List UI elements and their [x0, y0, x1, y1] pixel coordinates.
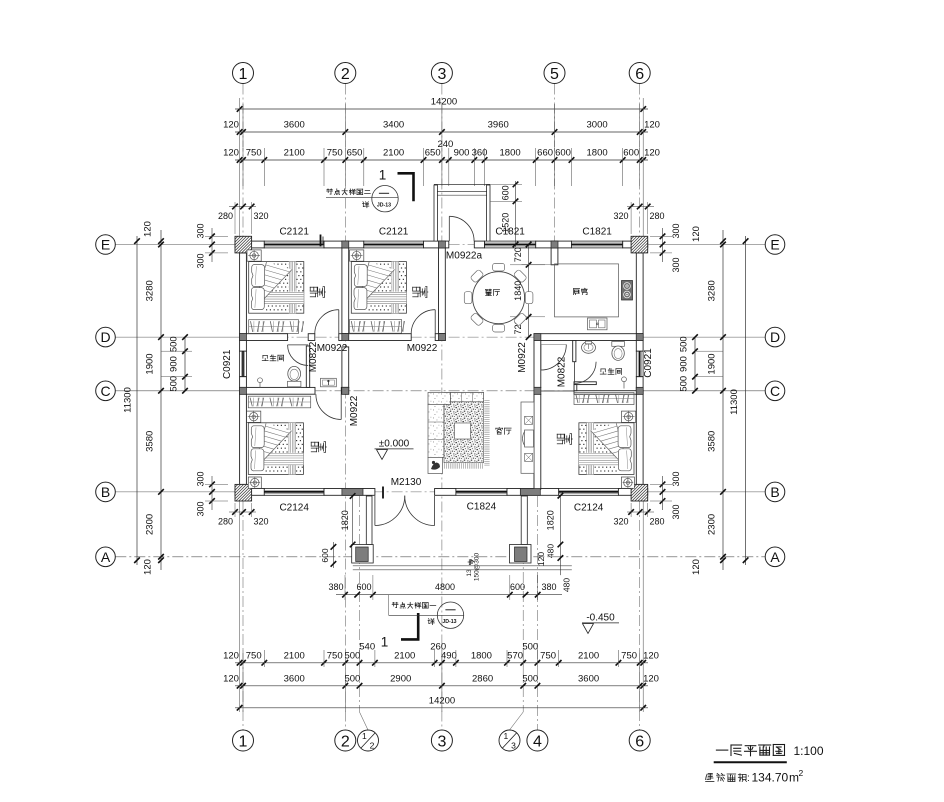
svg-text:320: 320 [613, 517, 628, 527]
svg-text:M2130: M2130 [391, 477, 422, 488]
svg-text:2: 2 [799, 768, 804, 778]
wall axis2 alcove to C [342, 347, 349, 388]
svg-text:1: 1 [239, 733, 248, 750]
wall C left segment [240, 387, 315, 394]
svg-text:M0922a: M0922a [446, 251, 483, 262]
sofa top seats [451, 393, 484, 402]
bottom dimension line overall 14200 [235, 707, 648, 709]
grid line axis 2 [344, 84, 346, 731]
corner pier B/1 hatched [235, 484, 252, 501]
grid line axis B [115, 491, 239, 493]
svg-text:2100: 2100 [383, 148, 404, 159]
axis bubble A right [765, 547, 785, 567]
side table with plant [428, 457, 443, 473]
wardrobe bedroom2 [350, 320, 402, 334]
entry porch top: steps and side walls [434, 183, 490, 185]
door M2130 double entry: leaves and arcs [374, 496, 376, 526]
room label bedroom4 [563, 434, 565, 438]
wall E to corner 6 [623, 241, 648, 248]
svg-text:3280: 3280 [707, 280, 718, 301]
svg-text:1820: 1820 [340, 510, 350, 530]
svg-text:750: 750 [246, 148, 262, 159]
svg-text:C0921: C0921 [643, 348, 654, 378]
svg-text:1800: 1800 [500, 148, 521, 159]
rug fringe bottom [444, 463, 446, 469]
svg-text:600: 600 [320, 548, 330, 562]
window C2121 bay 2-3 [364, 241, 424, 248]
left pier dimension 280/320 bottom [229, 511, 256, 513]
room label dining [486, 289, 488, 291]
svg-text:1: 1 [379, 168, 387, 183]
right pier dimension 300/300 at E [662, 228, 664, 262]
svg-text:500: 500 [679, 336, 690, 352]
window C1821 bay 5-6 [572, 241, 623, 248]
axis bubble D right [765, 327, 785, 347]
living room rug (speckled) [444, 393, 484, 463]
grid line axis C [115, 390, 239, 392]
wall right axis6 upper [636, 253, 643, 351]
door M0922 bedroom3: leaf and arc [340, 394, 342, 419]
svg-text:D: D [100, 329, 110, 345]
svg-text:6: 6 [635, 66, 644, 83]
top dimension line detail chain [235, 159, 648, 161]
wash basin alcove left [321, 378, 337, 387]
floor drain bathroom2 [622, 377, 627, 382]
dining round table with 8 chairs [525, 292, 533, 304]
window C1821 bay 3-5 [485, 241, 536, 248]
wall B window to door M2130 [324, 489, 375, 496]
left chain dimension [160, 230, 162, 570]
porch slab edge lines [353, 565, 572, 567]
porch column right [510, 545, 532, 564]
svg-text:660: 660 [537, 148, 553, 159]
axis bubble B right [765, 482, 785, 502]
wall D bedroom2 segment [345, 334, 411, 341]
door M0822 bathroom2: leaf and arc [573, 362, 575, 384]
svg-text:480: 480 [546, 544, 556, 558]
svg-text:2300: 2300 [145, 514, 156, 535]
right overall dimension 11300 [745, 236, 747, 565]
right pier dimension 320/280 top [627, 206, 654, 208]
wall D kitchen segment [534, 334, 643, 341]
axis bubble 3 bottom [431, 730, 452, 751]
axis bubble 1 top [233, 63, 254, 84]
svg-text:900: 900 [679, 356, 690, 372]
right pier dimension 320/280 bottom [627, 511, 654, 513]
svg-text:300: 300 [671, 223, 681, 238]
room label bedroom2 [419, 287, 421, 291]
svg-text:750: 750 [246, 650, 262, 661]
wall D bedroom1 segment [240, 334, 288, 341]
left pier dimension 280/320 top [229, 206, 256, 208]
detail bubble top (jiedian daYangTu 2) [327, 189, 329, 191]
wall E door to window [474, 241, 484, 248]
grid line axis D [115, 336, 239, 338]
svg-text:300: 300 [196, 471, 206, 486]
svg-text:750: 750 [327, 148, 343, 159]
door M0922 bedroom2: leaf and arc [434, 310, 436, 334]
left overall dimension 11300 [136, 236, 138, 565]
wall axis5 stub below E [551, 248, 558, 265]
svg-text:C: C [100, 383, 110, 399]
pedestal basin bathroom2 [582, 342, 596, 354]
room label living [498, 426, 500, 429]
wall C bedroom3 door to axis2 [341, 387, 348, 394]
svg-text:260: 260 [430, 642, 446, 653]
wall D stub between doors [308, 334, 315, 341]
wall B corner to window [235, 489, 264, 496]
svg-text:M0922: M0922 [407, 343, 438, 354]
door M0922 hall/axis4: leaf and arc [540, 345, 542, 371]
bottom dimension extension lines [239, 501, 241, 712]
svg-text:120: 120 [691, 559, 702, 575]
wall axis4 D to C [534, 341, 541, 388]
svg-text:500: 500 [169, 376, 180, 392]
door M0922a entry top: leaf and arc [448, 216, 450, 241]
svg-text:750: 750 [540, 650, 556, 661]
svg-text:120: 120 [643, 650, 659, 661]
kitchen counter outline [522, 264, 555, 266]
wall right axis6 lower [636, 377, 643, 485]
wall left axis1 lower [240, 377, 247, 485]
TV cabinet speaker bottom [525, 453, 533, 461]
bathroom1 east wall [306, 346, 309, 387]
axis bubble 1 bottom [233, 730, 254, 751]
svg-text:2900: 2900 [390, 673, 411, 684]
svg-text:2: 2 [341, 733, 350, 750]
svg-text:1800: 1800 [471, 650, 492, 661]
svg-text:120: 120 [143, 559, 154, 575]
svg-text:C2124: C2124 [574, 503, 604, 514]
svg-text:300: 300 [196, 253, 206, 268]
svg-text:E: E [101, 237, 110, 253]
svg-text:1: 1 [504, 731, 509, 741]
bedside table 2 bedroom3 [248, 477, 261, 488]
svg-text:240: 240 [437, 139, 453, 150]
svg-text:750: 750 [327, 650, 343, 661]
left pier dimension 300/300 at B [211, 476, 213, 510]
grid line axis A [115, 556, 765, 558]
svg-text:2: 2 [370, 741, 375, 751]
wall D bedroom1/axis2 segment [339, 334, 346, 341]
svg-text:2100: 2100 [394, 650, 415, 661]
svg-text:C1821: C1821 [495, 227, 525, 238]
wall E window to door [424, 241, 449, 248]
svg-text:1:100: 1:100 [793, 744, 823, 758]
bed bedroom1 [247, 250, 304, 314]
svg-text:120: 120 [223, 120, 239, 131]
svg-text:120: 120 [143, 221, 154, 237]
svg-text::: : [747, 773, 750, 784]
grid line axis 1 [242, 84, 244, 237]
svg-text:1840: 1840 [513, 281, 523, 301]
svg-text:E: E [770, 237, 779, 253]
wardrobe bedroom3 [248, 396, 310, 408]
section break mark on wall E [320, 235, 322, 247]
svg-text:3400: 3400 [383, 120, 404, 131]
axis bubble 6 bottom [629, 730, 650, 751]
right sub-chain 500/900/500 [694, 337, 696, 391]
svg-text:3280: 3280 [145, 280, 156, 301]
svg-text:2100: 2100 [578, 650, 599, 661]
right chain dimension [722, 230, 724, 570]
porch dimension 1820 left [352, 496, 354, 545]
svg-text:500: 500 [679, 376, 690, 392]
svg-text:120: 120 [691, 226, 702, 242]
svg-text:3600: 3600 [284, 120, 305, 131]
bed bedroom4 (mirrored) [579, 411, 636, 475]
grid line axis E [115, 244, 239, 246]
wall E window to axis5 [536, 241, 572, 248]
axis bubble 6 top [629, 63, 650, 84]
svg-text:120: 120 [223, 650, 239, 661]
kitchen stove with burners [622, 281, 633, 301]
grid line axis 4 [536, 496, 538, 730]
TV set [525, 430, 534, 447]
svg-text:C2121: C2121 [379, 227, 409, 238]
wall axis2 E to D [342, 248, 349, 334]
svg-text:360: 360 [472, 148, 488, 159]
svg-text:±0.000: ±0.000 [379, 439, 410, 450]
window C0921 right [636, 351, 643, 376]
svg-text:1900: 1900 [145, 353, 156, 374]
svg-text:600: 600 [510, 582, 525, 592]
svg-text:500: 500 [344, 673, 360, 684]
axis bubble E left [96, 235, 116, 255]
svg-text:2300: 2300 [707, 514, 718, 535]
svg-text:14200: 14200 [431, 97, 457, 108]
window C1824 [456, 489, 507, 496]
grid line axis 5 [554, 84, 556, 242]
toilet bathroom1 [288, 381, 301, 387]
porch column left [352, 545, 374, 564]
svg-text:A: A [101, 549, 111, 565]
svg-text:120: 120 [223, 673, 239, 684]
svg-text:C1821: C1821 [582, 227, 612, 238]
bathroom2 west wall [573, 341, 576, 362]
TV cabinet [521, 402, 534, 473]
svg-text:M0822: M0822 [308, 341, 319, 372]
pier block B left of door [342, 489, 363, 496]
section break mark on wall B [382, 487, 384, 499]
svg-text:320: 320 [253, 517, 268, 527]
svg-text:A: A [770, 549, 780, 565]
svg-text:300: 300 [671, 504, 681, 519]
svg-text:540: 540 [359, 642, 375, 653]
window C2121 bay 1-2 [264, 241, 324, 248]
top dimension line overall 14200 [235, 108, 648, 110]
svg-text:300: 300 [671, 257, 681, 272]
svg-text:1: 1 [381, 635, 389, 650]
doorway threshold bedroom4 [541, 390, 574, 392]
svg-text:650: 650 [347, 148, 363, 159]
axis bubble A left [96, 547, 116, 567]
svg-text:11300: 11300 [123, 387, 134, 413]
bedside table 2 bedroom4 [621, 477, 634, 488]
top dimension line bays [235, 131, 648, 133]
porch dimension 1820/480 right [559, 496, 561, 575]
wall C right segment bedroom4 [574, 391, 643, 395]
svg-text:B: B [101, 484, 110, 500]
sofa corner piece [428, 393, 451, 405]
porch side wall left [366, 496, 372, 545]
axis bubble 5 top [544, 63, 565, 84]
svg-text:600: 600 [356, 582, 371, 592]
bottom dimension line bays [235, 685, 648, 687]
corner pier E/1 hatched [235, 236, 252, 253]
svg-text:750: 750 [621, 650, 637, 661]
wall D bedroom2/axis3 segment [435, 334, 445, 341]
svg-text:120: 120 [536, 552, 546, 566]
grid line axis 1/2 [359, 496, 361, 712]
svg-text:150@300: 150@300 [474, 552, 481, 581]
grid line axis 3 [441, 84, 443, 731]
wardrobe bedroom1 [249, 320, 299, 334]
svg-text:300: 300 [196, 501, 206, 516]
svg-text:500: 500 [522, 673, 538, 684]
pier blocks at wall intersections [342, 241, 349, 248]
svg-text:120: 120 [644, 148, 660, 159]
svg-text:380: 380 [541, 582, 556, 592]
svg-text:600: 600 [555, 148, 571, 159]
svg-text:900: 900 [454, 148, 470, 159]
kitchen sink [588, 318, 608, 330]
axis bubble B left [96, 482, 116, 502]
svg-text:m: m [789, 771, 799, 785]
svg-text:2860: 2860 [472, 673, 493, 684]
axis bubble 4 bottom [527, 730, 548, 751]
rug fringe right [484, 400, 489, 402]
svg-text:320: 320 [253, 211, 268, 221]
axis bubble 1/3 bottom [499, 730, 520, 751]
toilet bathroom2 [612, 342, 625, 347]
bed bedroom2 [350, 250, 407, 314]
svg-text:480: 480 [562, 578, 572, 592]
axis bubble C right [765, 381, 785, 401]
TV cabinet speaker top [525, 416, 533, 424]
svg-text:4: 4 [533, 733, 542, 750]
svg-text:380: 380 [328, 582, 343, 592]
wall E axis1-window [235, 241, 264, 248]
grid line axis 6 [639, 84, 641, 237]
room label bathroom2 [601, 368, 605, 370]
svg-text:1800: 1800 [587, 148, 608, 159]
svg-text:1: 1 [362, 731, 367, 741]
bathroom2 south wall [574, 382, 596, 385]
axis bubble 2 top [335, 63, 356, 84]
svg-text:C0921: C0921 [222, 349, 233, 379]
bottom dimension detail chain [235, 662, 648, 664]
svg-text:3580: 3580 [707, 431, 718, 452]
svg-text:3000: 3000 [587, 120, 608, 131]
detail bubble bottom (jiedian daYangTu 1) [392, 602, 394, 604]
sofa left seats [428, 404, 444, 457]
axis bubble E right [765, 235, 785, 255]
wall B door to window C1824 [435, 489, 456, 496]
svg-text:5: 5 [550, 66, 559, 83]
porch top dimension 600/1520 [515, 181, 517, 247]
svg-text:300: 300 [671, 471, 681, 486]
axis bubble C left [96, 381, 116, 401]
svg-text:3960: 3960 [488, 120, 509, 131]
title: first floor plan [716, 749, 727, 751]
wall B to corner 6 [618, 489, 647, 496]
svg-text:120: 120 [643, 673, 659, 684]
pier block B right of door [520, 489, 540, 496]
svg-text:720: 720 [513, 247, 523, 262]
svg-text:900: 900 [169, 356, 180, 372]
svg-text:B: B [770, 484, 779, 500]
svg-text:M0922: M0922 [349, 395, 360, 426]
svg-text:280: 280 [649, 211, 664, 221]
grid line axis 1/3 [522, 496, 524, 712]
svg-text:300: 300 [196, 223, 206, 238]
right pier dimension 300/300 at B [662, 476, 664, 510]
svg-text:JD-13: JD-13 [442, 619, 456, 625]
room label bedroom1 [316, 287, 318, 291]
svg-text:3: 3 [511, 741, 516, 751]
svg-text:2100: 2100 [284, 148, 305, 159]
svg-text:C1824: C1824 [467, 502, 497, 513]
svg-text:120: 120 [223, 148, 239, 159]
svg-text:3: 3 [437, 66, 446, 83]
corner pier E/6 hatched [631, 236, 648, 253]
window C0921 left [240, 351, 247, 376]
svg-text:6: 6 [635, 733, 644, 750]
svg-text:11300: 11300 [729, 389, 740, 415]
title underline [714, 761, 787, 763]
svg-text:C: C [770, 383, 780, 399]
room label bathroom1 [263, 354, 267, 356]
svg-text:2: 2 [341, 66, 350, 83]
svg-text:1900: 1900 [707, 353, 718, 374]
axis bubble 2 bottom [335, 730, 356, 751]
wall E between windows [324, 241, 364, 248]
svg-text:1: 1 [239, 66, 248, 83]
svg-text:1820: 1820 [546, 510, 556, 530]
svg-text:4800: 4800 [435, 582, 455, 592]
svg-text:M0922: M0922 [317, 343, 348, 354]
dining dimension 720/1840/720 [528, 245, 530, 338]
svg-text:M0822: M0822 [557, 356, 568, 387]
bed bedroom3 [247, 411, 304, 475]
svg-text:500: 500 [344, 650, 360, 661]
porch side wall right [521, 496, 527, 545]
svg-text:2100: 2100 [284, 650, 305, 661]
svg-text:3: 3 [437, 733, 446, 750]
window C2124 bay 4-6 [559, 489, 619, 496]
svg-text:600: 600 [501, 185, 511, 200]
floor drain bathroom1 [258, 378, 263, 383]
svg-text:C2121: C2121 [279, 227, 309, 238]
svg-text:600: 600 [623, 148, 639, 159]
svg-text:320: 320 [613, 211, 628, 221]
svg-text:500: 500 [169, 336, 180, 352]
porch dimension 600 left column [332, 542, 334, 568]
svg-text:280: 280 [218, 211, 233, 221]
svg-text:3600: 3600 [578, 673, 599, 684]
wardrobe bedroom4 [574, 393, 634, 405]
svg-text:M0922: M0922 [517, 342, 528, 373]
bathroom2 wall corner piece [574, 385, 577, 391]
svg-text:-0.450: -0.450 [586, 613, 615, 624]
room label bedroom3 [317, 442, 319, 446]
wall axis4 C to B [534, 394, 541, 489]
svg-text:280: 280 [649, 517, 664, 527]
svg-text:134.70: 134.70 [752, 771, 789, 785]
axis bubble 1/2 bottom [358, 730, 379, 751]
svg-text:570: 570 [507, 650, 523, 661]
